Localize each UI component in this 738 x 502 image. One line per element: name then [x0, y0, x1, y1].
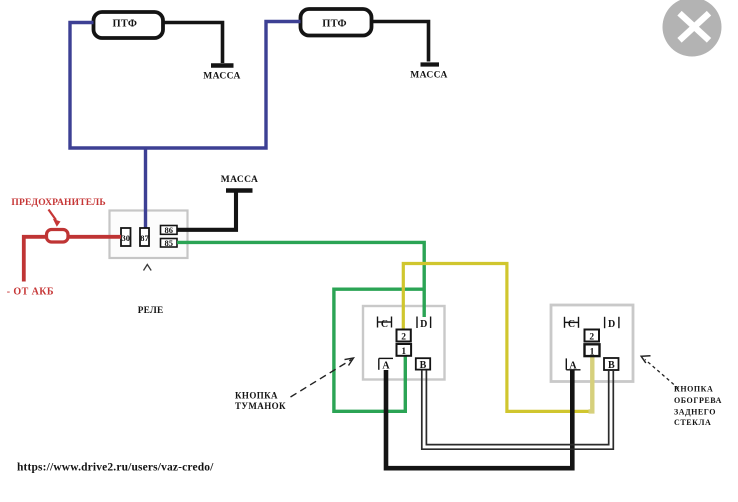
- fog lamp PTF2: [301, 9, 372, 36]
- fog button pin A: [379, 358, 393, 371]
- wire black ground to relay pin 86: [177, 190, 236, 230]
- svg-text:A: A: [569, 361, 577, 372]
- fog button pin C: [378, 317, 392, 331]
- wire PTF1 to ground G1: [163, 23, 223, 64]
- svg-text:D: D: [608, 319, 615, 330]
- wire blue branch to relay pin 87: [144, 148, 147, 228]
- dashed arrow to rear button: [641, 356, 678, 389]
- wire yellow pale riser into rear pin 1: [589, 356, 593, 411]
- svg-text:МАССА: МАССА: [203, 72, 240, 82]
- svg-text:МАССА: МАССА: [410, 71, 447, 81]
- svg-text:ТУМАНОК: ТУМАНОК: [235, 401, 286, 411]
- wire red battery to relay pin 30: [24, 237, 121, 282]
- svg-text:D: D: [420, 319, 427, 330]
- svg-text:C: C: [568, 319, 575, 330]
- svg-text:B: B: [608, 360, 615, 371]
- svg-text:ЗАДНЕГО: ЗАДНЕГО: [674, 407, 716, 416]
- relay pin 85: [161, 238, 178, 248]
- wire blue bus PTF1-PTF2: [70, 22, 301, 149]
- fog button pin B: [416, 358, 430, 371]
- rear button pin 1: [585, 344, 600, 357]
- relay pin 30: [121, 228, 131, 246]
- wire green loop to button pin 1: [334, 289, 424, 411]
- svg-text:ПТФ: ПТФ: [322, 19, 347, 30]
- svg-text:КНОПКА: КНОПКА: [235, 391, 278, 401]
- arrow to fuse: [49, 210, 61, 227]
- rear button S2 box: [551, 305, 633, 382]
- svg-text:1: 1: [590, 347, 595, 357]
- svg-text:https://www.drive2.ru/users/va: https://www.drive2.ru/users/vaz-credo/: [17, 462, 214, 474]
- relay K1 box: [110, 211, 188, 259]
- fog button pin 2: [397, 330, 411, 343]
- close button X: [663, 0, 722, 57]
- fog button S1 box: [363, 306, 445, 380]
- dashed arrow to fog button: [291, 358, 354, 397]
- label КНОПКА ОБОГРЕВА ЗАДНЕГО СТЕКЛА: [674, 385, 722, 428]
- rear button pin B: [604, 358, 619, 371]
- svg-text:86: 86: [165, 225, 174, 235]
- relay pin 87: [140, 228, 150, 246]
- fog button pin D: [417, 317, 431, 331]
- ground G1: [211, 63, 234, 68]
- svg-text:87: 87: [140, 233, 149, 243]
- rear button pin 2: [585, 330, 600, 343]
- svg-text:B: B: [420, 360, 427, 371]
- rear button pin C: [565, 317, 579, 330]
- svg-text:A: A: [382, 361, 390, 372]
- svg-text:1: 1: [401, 347, 406, 357]
- svg-text:2: 2: [589, 333, 594, 343]
- wire black button A to rear A: [386, 370, 572, 468]
- wire double outline B to B outer: [422, 370, 614, 449]
- svg-text:ПТФ: ПТФ: [113, 18, 138, 29]
- relay orientation mark: [144, 265, 152, 271]
- wire double outline B to B inner: [426, 370, 608, 445]
- wire yellow button 2 to rear button 1: [403, 264, 590, 412]
- svg-text:30: 30: [122, 233, 131, 243]
- svg-text:ОБОГРЕВА: ОБОГРЕВА: [674, 396, 722, 405]
- svg-text:- ОТ АКБ: - ОТ АКБ: [7, 287, 54, 298]
- svg-text:2: 2: [401, 333, 406, 343]
- fog button pin 1: [397, 344, 412, 357]
- svg-text:СТЕКЛА: СТЕКЛА: [674, 418, 711, 427]
- svg-text:85: 85: [165, 238, 174, 248]
- ground G2: [421, 62, 440, 66]
- svg-text:МАССА: МАССА: [221, 175, 258, 185]
- svg-text:ПРЕДОХРАНИТЕЛЬ: ПРЕДОХРАНИТЕЛЬ: [11, 198, 106, 208]
- wire green relay 85 to button D: [177, 242, 424, 317]
- fog lamp PTF1: [94, 12, 164, 38]
- svg-text:C: C: [381, 319, 388, 330]
- wire PTF2 to ground G2: [372, 22, 429, 62]
- label КНОПКА ТУМАНОК: [235, 391, 286, 412]
- svg-text:КНОПКА: КНОПКА: [674, 385, 713, 394]
- fuse F1: [47, 230, 69, 243]
- rear button pin D: [605, 317, 619, 330]
- svg-text:РЕЛЕ: РЕЛЕ: [138, 306, 164, 316]
- rear button pin A: [566, 358, 580, 371]
- ground G3: [226, 188, 253, 193]
- relay pin 86: [161, 225, 178, 235]
